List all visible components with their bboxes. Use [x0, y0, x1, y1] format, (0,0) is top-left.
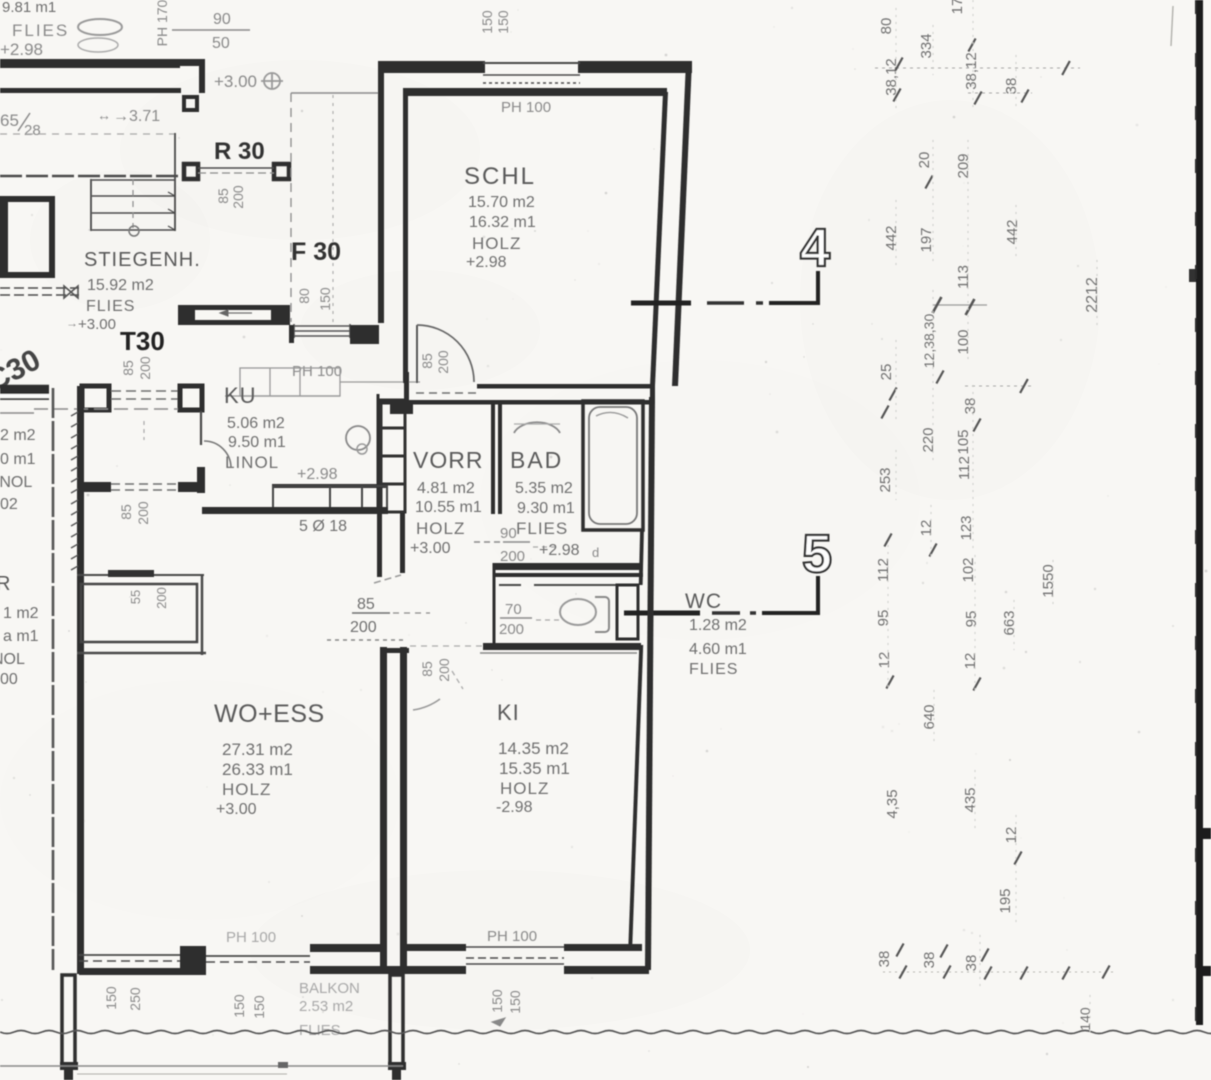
hall inner dash line — [34, 408, 178, 410]
hall top wall left piece — [0, 386, 49, 394]
svg-text:195: 195 — [997, 888, 1014, 913]
balcony right post foot — [388, 1062, 406, 1070]
svg-text:+3.00: +3.00 — [410, 540, 451, 557]
door R30 right post — [274, 164, 289, 179]
bathtub squiggle — [596, 412, 628, 418]
SCHL bottom wall right end cap — [650, 384, 655, 404]
east outer wall lower (slanted) — [645, 397, 655, 970]
niche arrow head — [220, 310, 228, 316]
wall block NE of KU — [350, 325, 379, 344]
SCHL top wall left segment — [378, 61, 485, 73]
callout 4 heavy segment — [631, 301, 691, 306]
svg-text:15.92 m2: 15.92 m2 — [87, 277, 154, 294]
SCHL east inner wall (slanted) — [650, 92, 668, 386]
svg-text:FLIES: FLIES — [689, 661, 738, 678]
svg-text:PH 170: PH 170 — [154, 0, 170, 46]
KU north niche wall inner — [195, 320, 272, 325]
svg-text:+2.98: +2.98 — [297, 466, 338, 483]
bottom dim dotted line — [883, 971, 1115, 973]
svg-text:R 30: R 30 — [214, 138, 265, 165]
WC inner top line left — [499, 584, 521, 586]
KU landing window line 1 — [294, 325, 350, 327]
VORR west wall lower inner — [400, 513, 405, 573]
window cap left — [293, 324, 295, 338]
svg-text:FLIES: FLIES — [12, 21, 69, 40]
washbasin back edge — [514, 423, 560, 425]
svg-text:27.31 m2: 27.31 m2 — [222, 740, 293, 759]
SCHL door leaf dash in wall — [416, 392, 477, 394]
wall corner cap vertical — [199, 59, 205, 93]
balcony left post — [62, 975, 75, 1067]
svg-text:442: 442 — [1004, 219, 1021, 244]
svg-text:17: 17 — [949, 0, 966, 14]
svg-text:→3.71: →3.71 — [113, 108, 160, 125]
KU west wall upper — [200, 411, 202, 445]
stair side left — [90, 179, 92, 231]
lift shaft left dark edge — [0, 197, 8, 277]
hall dim leader — [143, 421, 145, 440]
svg-text:VORR: VORR — [413, 447, 483, 473]
KI bottom wall right lower — [564, 966, 649, 974]
svg-text:→: → — [66, 316, 78, 330]
KU niche cap right solid — [271, 305, 290, 325]
balcony door line 1 — [206, 955, 310, 957]
SCHL inner top wall — [403, 88, 667, 96]
svg-text:HOLZ: HOLZ — [222, 780, 271, 799]
closet bottom outer line — [77, 652, 206, 655]
svg-text:+3.00: +3.00 — [216, 801, 257, 818]
svg-text:95: 95 — [963, 611, 980, 628]
svg-text:HOLZ: HOLZ — [472, 234, 521, 253]
column marker square — [184, 97, 197, 110]
svg-text:BALKON: BALKON — [299, 980, 360, 997]
WO window mid line — [79, 960, 182, 962]
KU counter body — [273, 486, 387, 508]
stair walk line start circle — [129, 226, 139, 236]
dimension area faint lines — [875, 67, 1080, 69]
edge tick lower — [1203, 828, 1211, 839]
stair top tread edge — [92, 179, 175, 181]
svg-text:12: 12 — [918, 520, 935, 537]
svg-text:209: 209 — [955, 153, 972, 178]
level symbol circle-cross — [261, 73, 283, 89]
small arrow below KI dims — [492, 1018, 505, 1026]
stair walk line — [132, 179, 134, 228]
svg-text:80: 80 — [296, 288, 312, 304]
svg-text:15.70 m2: 15.70 m2 — [468, 194, 535, 211]
KU bottom wall — [202, 507, 388, 514]
slash 65/28 — [18, 113, 30, 131]
SCHL east outer wall (slanted) — [672, 61, 692, 386]
balcony left post below foot — [64, 1070, 73, 1080]
svg-text:HOLZ: HOLZ — [416, 519, 465, 538]
svg-text:5 Ø 18: 5 Ø 18 — [299, 518, 347, 535]
svg-text:140: 140 — [1077, 1007, 1093, 1031]
WO bottom wall right lower — [310, 966, 380, 974]
svg-text:+2.98: +2.98 — [0, 40, 43, 59]
callout 5 heavy segment — [624, 611, 700, 616]
svg-text:150: 150 — [231, 994, 247, 1018]
WO door leaf dash — [374, 575, 401, 583]
svg-text:112: 112 — [956, 456, 973, 480]
SCHL window outer line — [483, 62, 580, 64]
landing dim line left — [290, 93, 292, 322]
KI top wall right segment — [483, 643, 641, 650]
svg-text:85: 85 — [215, 188, 231, 204]
svg-text:F 30: F 30 — [291, 238, 341, 266]
callout 5 vertical bar — [816, 576, 820, 612]
svg-text:BAD: BAD — [510, 447, 563, 473]
balcony bottom edge line — [0, 1065, 403, 1067]
balcony right post below foot — [392, 1070, 401, 1080]
svg-text:25: 25 — [878, 364, 895, 381]
svg-text:90: 90 — [500, 525, 517, 542]
stair tread 2 — [92, 212, 175, 214]
svg-text:200: 200 — [350, 619, 377, 636]
svg-text:12: 12 — [1003, 827, 1020, 844]
svg-text:STIEGENH.: STIEGENH. — [84, 249, 201, 271]
VORR-BAD wall line 2 — [498, 402, 502, 514]
window cap right — [349, 324, 351, 338]
wall top-left inner line — [0, 88, 181, 93]
svg-text:38,12: 38,12 — [883, 58, 900, 96]
WO door fraction bar — [352, 612, 390, 614]
landing top thin line — [291, 92, 382, 94]
svg-text:38: 38 — [876, 951, 893, 968]
hoist bowtie symbol — [64, 286, 78, 298]
stair tread 1 — [92, 195, 175, 197]
stair side right — [174, 133, 176, 231]
right scan edge bar — [1196, 0, 1203, 1025]
svg-text:LINOL: LINOL — [225, 453, 279, 472]
WO bottom wall right upper — [310, 944, 380, 952]
balcony right post — [390, 975, 403, 1067]
svg-text:9.50 m1: 9.50 m1 — [228, 434, 286, 451]
svg-text:28: 28 — [24, 122, 41, 139]
svg-text:85: 85 — [120, 360, 136, 376]
balcony small mark — [278, 1062, 288, 1068]
svg-text:1.28 m2: 1.28 m2 — [689, 617, 747, 634]
svg-text:FLIES: FLIES — [516, 519, 568, 538]
svg-text:NOL: NOL — [0, 651, 25, 668]
balcony left post foot — [60, 1062, 78, 1070]
svg-text:↔: ↔ — [97, 107, 111, 123]
svg-text:200: 200 — [500, 548, 525, 565]
SCHL bottom wall upper line — [477, 384, 651, 389]
svg-text:FLIES: FLIES — [86, 298, 135, 315]
balcony pillar block — [180, 946, 206, 975]
svg-text:435: 435 — [962, 787, 979, 812]
bathtub inner — [589, 407, 637, 524]
svg-text:4.81 m2: 4.81 m2 — [417, 480, 475, 497]
closet box — [81, 584, 197, 642]
svg-text:150: 150 — [251, 995, 267, 1019]
svg-text:+2.98: +2.98 — [539, 542, 580, 559]
T30 door leaf dash 1 — [111, 390, 178, 392]
WC west wall — [493, 563, 496, 647]
left boundary wall outer line — [52, 388, 55, 970]
SCHL door leaf — [416, 325, 418, 383]
SCHL bottom wall lower line — [377, 400, 651, 405]
svg-text:200: 200 — [230, 185, 246, 209]
wall hatch ticks — [71, 412, 78, 570]
T30 right jamb post — [180, 386, 202, 410]
wall sliver left of window — [289, 325, 294, 343]
SCHL window line 1 — [483, 74, 580, 76]
WC bottom second line — [480, 652, 637, 654]
svg-text:38: 38 — [921, 952, 938, 969]
svg-text:150: 150 — [507, 990, 523, 1014]
svg-text:9.81 m1: 9.81 m1 — [2, 0, 56, 16]
svg-text:PH 100: PH 100 — [487, 928, 537, 945]
WO window outer line — [79, 954, 182, 956]
KI window line 1 — [466, 946, 564, 948]
svg-text:d: d — [592, 545, 599, 560]
toilet cistern — [595, 597, 609, 632]
svg-text:200: 200 — [436, 658, 452, 682]
svg-text:38: 38 — [963, 955, 980, 972]
edge tick at bottom dim row — [1202, 966, 1211, 976]
svg-text:+3.00: +3.00 — [214, 72, 257, 91]
svg-text:95: 95 — [875, 610, 892, 627]
T30 door leaf dash 2 — [111, 398, 178, 400]
svg-text:85: 85 — [419, 353, 435, 369]
svg-text:HOLZ: HOLZ — [500, 779, 549, 798]
dotted boundary line WO-KI — [327, 639, 403, 641]
svg-text:5.35 m2: 5.35 m2 — [515, 480, 573, 497]
edge tick upper — [1189, 269, 1196, 282]
svg-text:WC: WC — [685, 590, 722, 613]
svg-text:197: 197 — [918, 227, 935, 252]
landing dim line right — [332, 95, 334, 322]
stair landing edge line — [0, 175, 179, 178]
svg-text:640: 640 — [921, 704, 938, 729]
svg-text:4: 4 — [800, 218, 830, 278]
WO-KI divider wall west line — [380, 647, 387, 974]
BAD bottom wall upper — [493, 563, 643, 570]
svg-text:5: 5 — [802, 524, 832, 584]
svg-text:R: R — [0, 573, 10, 595]
KU north niche wall outer — [178, 305, 290, 310]
hall lower door dash 2 — [111, 489, 178, 491]
fraction bar 90/50 — [172, 29, 250, 31]
east inner wall lower segment above corridor (slanted) — [639, 531, 644, 585]
svg-text:123: 123 — [958, 515, 975, 540]
BAD door fraction bar — [503, 541, 530, 543]
svg-text:16.32 m1: 16.32 m1 — [469, 214, 536, 231]
svg-text:50: 50 — [212, 35, 230, 52]
KU landing window line 2 — [294, 330, 350, 332]
VORR west wall lower outer — [377, 513, 382, 577]
svg-text:2 m2: 2 m2 — [0, 427, 36, 444]
svg-text:15.35 m1: 15.35 m1 — [499, 759, 570, 778]
svg-text:150: 150 — [495, 10, 511, 34]
svg-text:200: 200 — [435, 350, 451, 374]
dash line below 65/28 — [0, 133, 176, 135]
WC door fraction bar — [500, 617, 532, 619]
balcony lower faint line — [77, 1073, 287, 1075]
hall wall inner thin — [0, 398, 49, 400]
KI bottom wall left lower — [380, 966, 466, 974]
niche arrow line — [226, 312, 252, 314]
svg-text:220: 220 — [920, 427, 937, 452]
bathtub outer — [583, 401, 643, 530]
BAD bottom wall lower — [493, 573, 643, 577]
KU door swing arc — [204, 441, 231, 468]
washbasin arc — [514, 422, 560, 433]
WO bottom wall lower — [79, 968, 182, 975]
WC inner top line right — [534, 584, 616, 586]
svg-text:38,12: 38,12 — [963, 52, 980, 90]
svg-text:12: 12 — [962, 653, 979, 670]
svg-text:T30: T30 — [120, 326, 165, 356]
KI bottom wall right upper — [564, 944, 642, 951]
VORR-BAD wall line 1 — [491, 402, 495, 514]
svg-text:102: 102 — [960, 557, 977, 582]
left apt thin line — [0, 412, 34, 414]
svg-text:0 m1: 0 m1 — [0, 451, 36, 468]
faint scratch top right — [1171, 6, 1173, 46]
wall corner cap top — [178, 59, 205, 66]
svg-text:100: 100 — [955, 329, 972, 354]
KU east wall line — [377, 394, 380, 513]
hoist line lower — [0, 294, 79, 296]
KI window line 3 — [466, 963, 564, 965]
WC dim leader — [536, 619, 562, 621]
toilet bowl — [560, 599, 596, 625]
svg-text:663: 663 — [1001, 610, 1018, 635]
WO-KI divider wall east line — [400, 647, 407, 974]
callout 5 end segment — [762, 611, 820, 615]
svg-text:150: 150 — [479, 10, 495, 34]
east inner wall lower segment KI (slanted) — [628, 645, 643, 945]
KI bottom wall left upper — [402, 944, 466, 951]
svg-text:90: 90 — [213, 11, 231, 28]
door R30 leaf line 1 — [198, 167, 274, 169]
svg-text:LINOL: LINOL — [0, 474, 32, 491]
KI door leaf dash — [452, 671, 463, 689]
svg-text:KU: KU — [224, 383, 257, 408]
callout 4 dot — [756, 301, 763, 305]
SCHL west inner wall — [403, 92, 408, 383]
callout 5 dot — [750, 611, 756, 615]
svg-text:+3.00: +3.00 — [78, 316, 116, 333]
scan smudges — [120, 60, 480, 240]
svg-text:4,35: 4,35 — [884, 789, 901, 818]
lift shaft — [2, 199, 52, 275]
svg-text:442: 442 — [883, 225, 900, 250]
svg-text:200: 200 — [135, 501, 151, 525]
svg-text:20: 20 — [916, 152, 933, 169]
KU west wall lower block — [197, 467, 205, 493]
kitchen counter top faint — [225, 368, 420, 396]
left boundary wall inner thick — [77, 386, 84, 974]
svg-text:+2.98: +2.98 — [466, 254, 507, 271]
svg-text:38: 38 — [962, 398, 979, 415]
svg-text:38: 38 — [1003, 78, 1020, 95]
callout 4 end segment — [769, 301, 820, 305]
svg-text:85: 85 — [419, 661, 435, 677]
svg-text:4.60 m1: 4.60 m1 — [689, 641, 747, 658]
svg-text:KI: KI — [497, 700, 520, 725]
svg-text:113: 113 — [955, 265, 972, 289]
svg-text:PH 100: PH 100 — [501, 99, 551, 116]
KI window line 2 — [466, 957, 564, 959]
svg-text:70: 70 — [505, 601, 522, 618]
svg-text:55: 55 — [128, 590, 143, 604]
stair tread 3 — [92, 229, 175, 231]
svg-text:14.35 m2: 14.35 m2 — [498, 739, 569, 758]
door R30 left post — [184, 164, 198, 179]
svg-text:WO+ESS: WO+ESS — [214, 700, 325, 728]
callout 4 dash — [707, 301, 744, 305]
svg-text:85: 85 — [118, 504, 134, 520]
svg-text:26.33 m1: 26.33 m1 — [222, 760, 293, 779]
svg-text:65: 65 — [0, 111, 19, 130]
wavy line path — [0, 1031, 1211, 1034]
svg-text:1550: 1550 — [1040, 564, 1057, 597]
svg-text:200: 200 — [137, 356, 153, 380]
svg-text:105: 105 — [955, 429, 972, 454]
svg-text:02: 02 — [0, 496, 18, 513]
BAD door dash leader — [533, 546, 560, 548]
balcony door line 2 — [206, 961, 310, 963]
svg-text:PH 100: PH 100 — [226, 929, 276, 946]
closet door bold segment — [108, 570, 154, 577]
WO door dim dash — [393, 612, 430, 614]
KU stove circle — [346, 426, 370, 450]
corner blob left of BAD wall — [390, 401, 413, 414]
hall lower door dash 1 — [111, 483, 178, 485]
svg-text:150: 150 — [317, 287, 333, 311]
svg-text:2212: 2212 — [1084, 277, 1101, 313]
svg-text:253: 253 — [877, 467, 894, 492]
T30 left jamb post — [82, 386, 109, 410]
svg-text:5.06 m2: 5.06 m2 — [227, 415, 285, 432]
svg-text:2.53 m2: 2.53 m2 — [299, 998, 353, 1015]
svg-text:-2.98: -2.98 — [496, 799, 533, 816]
KI NW corner cap — [385, 648, 409, 653]
KU counter top edge — [272, 484, 388, 488]
scribble ovals — [78, 19, 122, 35]
KU landing window line 3 — [294, 335, 350, 337]
svg-text:80: 80 — [878, 18, 895, 35]
svg-text:250: 250 — [127, 987, 143, 1011]
wall top-left outer — [0, 59, 180, 68]
hoist line upper — [0, 287, 79, 289]
closet right outer line — [201, 574, 204, 655]
door R30 leaf line 2 — [198, 172, 274, 174]
cabinet column in VORR — [381, 400, 405, 512]
SCHL west outer wall — [378, 61, 384, 323]
SCHL top wall right segment — [578, 61, 692, 73]
svg-text:10.55 m1: 10.55 m1 — [415, 499, 482, 516]
svg-text:SCHL: SCHL — [464, 163, 536, 190]
svg-text:200: 200 — [499, 621, 524, 638]
callout 4 vertical bar — [816, 271, 820, 304]
KU niche cap left solid — [178, 305, 195, 325]
KI door gap sill line — [410, 645, 482, 647]
svg-text:334: 334 — [918, 33, 935, 58]
svg-text:12: 12 — [876, 652, 893, 669]
svg-text:112: 112 — [875, 558, 892, 582]
svg-text:12,38,30: 12,38,30 — [921, 314, 937, 369]
SCHL door arc — [417, 325, 474, 382]
svg-text:85: 85 — [357, 596, 375, 613]
edge bar roughness — [1195, 0, 1197, 14]
SCHL window line 2 — [483, 82, 580, 84]
closet top line — [77, 574, 204, 576]
